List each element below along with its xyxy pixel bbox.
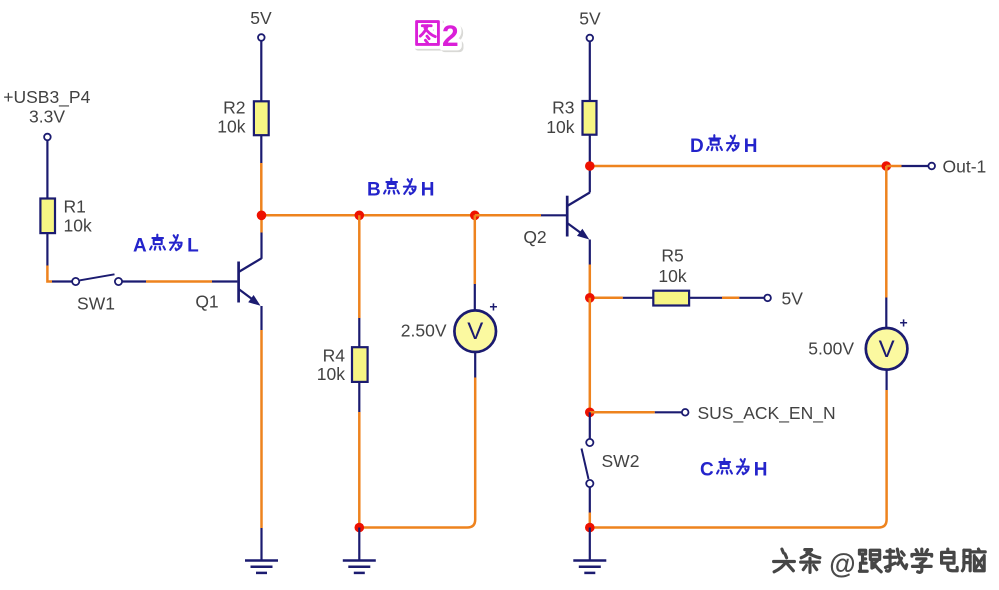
svg-text:10k: 10k [658,266,686,286]
node B junction 3 [470,211,480,221]
wire node B2 to R4 [358,215,361,347]
wire R1 to SW1 [47,233,71,281]
wire +USB3_P4 to R1 [46,141,48,199]
svg-text:2: 2 [442,20,459,53]
svg-text:D: D [690,136,704,157]
wire Q1 emitter to ground [260,306,262,560]
svg-text:Q1: Q1 [195,292,218,312]
svg-text:@: @ [829,548,855,580]
svg-text:10k: 10k [317,364,345,384]
svg-text:R4: R4 [323,346,346,366]
annotation net label A point L [133,235,199,257]
wire Q1 collector to node B [260,215,263,258]
wire node C1 to node C2 [589,298,592,413]
wire node B3 to voltmeter VM1 [474,215,477,310]
node B junction 2 [355,211,365,221]
node C1 junction [585,293,595,303]
node C2 junction [585,408,595,418]
voltmeter VM2 5.00V [808,315,907,370]
resistor R2 10k [217,98,268,137]
wire node D2 to Out-1 [886,165,928,168]
wire R5 to 5V terminal [689,297,764,299]
wire node C2 to SUS_ACK_EN_N [590,411,682,414]
wire VM2 to ground junction [592,370,887,528]
wire R4 to ground junction [358,382,360,528]
wire R3 to node D [589,135,591,166]
wire Q2 emitter down [589,240,591,298]
svg-text:5V: 5V [579,9,601,29]
resistor R5 10k [653,246,689,306]
svg-text:5.00V: 5.00V [808,339,854,359]
wire R2 to node B [260,135,262,215]
node ground junction left [355,523,365,533]
wire SW1 to Q1 base [122,280,237,282]
svg-text:R1: R1 [64,197,86,217]
node ground junction right [585,523,595,533]
svg-text:+: + [900,315,908,331]
wire node B bus [262,214,475,217]
svg-text:5V: 5V [250,8,272,28]
svg-text:C: C [700,460,714,481]
wire node C1 to R5 [590,297,654,300]
wire 5V to R3 [589,42,591,102]
svg-text:H: H [754,460,768,481]
annotation net label B point H [367,179,435,201]
svg-text:3.3V: 3.3V [29,107,65,127]
transistor Q2 [523,193,589,248]
svg-text:H: H [421,180,435,201]
power terminal 5V (R3) [579,9,601,42]
terminal 5V (R5) [764,289,803,309]
svg-text:10k: 10k [546,117,574,137]
svg-text:2.50V: 2.50V [401,321,447,341]
svg-text:Q2: Q2 [523,227,546,247]
switch SW2 [582,439,640,487]
resistor R4 10k [317,346,368,385]
resistor R3 10k [546,98,596,137]
svg-text:L: L [187,236,199,257]
svg-text:+USB3_P4: +USB3_P4 [3,87,90,108]
node D junction [585,161,595,171]
svg-text:10k: 10k [217,117,245,137]
svg-text:R3: R3 [552,98,574,118]
svg-text:SW2: SW2 [602,451,640,471]
voltmeter VM1 2.50V [401,299,498,353]
ground (Q1 emitter) [245,561,278,573]
resistor R1 10k [40,197,92,236]
power terminal 5V (R2) [250,8,272,41]
node D junction 2 [882,161,892,171]
wire 5V to R2 [260,41,262,101]
svg-text:R5: R5 [661,246,683,266]
svg-text:A: A [133,236,147,257]
svg-text:SW1: SW1 [77,294,115,314]
ground (right branch) [573,561,606,573]
terminal SUS_ACK_EN_N [682,403,836,424]
wire junction to ground (right) [589,528,591,560]
title figure 2 [417,20,461,55]
svg-text:SUS_ACK_EN_N: SUS_ACK_EN_N [698,403,836,424]
watermark toutiao handle [774,548,986,580]
terminal Out-1 [928,157,986,177]
annotation net label C point H [700,459,768,481]
node B junction 1 [257,211,267,221]
svg-text:5V: 5V [782,289,804,309]
svg-text:H: H [744,136,758,157]
svg-text:R2: R2 [223,98,245,118]
power terminal +USB3_P4 3.3V [3,87,90,140]
transistor Q1 [195,258,261,311]
svg-text:V: V [467,318,483,345]
wire SW2 to ground junction [589,487,591,528]
annotation net label D point H [690,135,758,157]
svg-text:10k: 10k [64,216,92,236]
svg-text:V: V [879,336,895,363]
wire node B3 to Q2 base [475,214,566,217]
svg-text:B: B [367,180,381,201]
svg-text:+: + [489,299,497,315]
svg-text:Out-1: Out-1 [943,157,987,177]
wire node D2 to voltmeter VM2 [885,166,888,328]
ground (R4 branch) [343,561,376,573]
wire node D bus [590,165,887,168]
wire VM1 to ground junction [361,352,475,528]
wire node C2 to SW2 [589,412,591,439]
wire Q2 collector to node D [589,166,591,193]
switch SW1 [72,274,122,313]
wire junction to ground (R4 branch) [358,528,360,560]
